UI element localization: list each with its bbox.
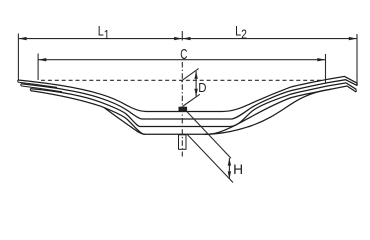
label L2 <box>235 23 247 42</box>
svg-text:C: C <box>180 46 187 63</box>
H oblique extension 2 <box>187 134 233 183</box>
center line (dash-dot) <box>181 62 183 157</box>
left tip 3 <box>29 89 31 91</box>
right tip A <box>356 83 358 85</box>
label C <box>180 46 187 63</box>
left tip 1 <box>17 80 19 82</box>
leaf 4 bottom edge left taper <box>104 108 145 135</box>
leaf 3 bottom edge <box>30 86 356 134</box>
extension line C right <box>325 54 327 83</box>
arrowhead C left <box>38 58 46 61</box>
leaf 4 bottom edge right taper <box>205 89 332 134</box>
leaf 1 bottom tip stub <box>18 82 57 87</box>
leaf 2 tip stub <box>21 86 62 92</box>
arrowhead L1 right <box>174 37 182 40</box>
label H <box>233 162 243 177</box>
arrowhead C right <box>317 58 325 61</box>
D arrow bottom <box>194 89 197 97</box>
D upper oblique extension <box>181 69 199 82</box>
right tip B <box>355 89 357 92</box>
H dimension line <box>228 158 230 179</box>
extension line C left <box>37 54 39 81</box>
center bolt head <box>179 107 187 111</box>
H oblique extension 1 <box>187 112 231 159</box>
H arrow top <box>228 158 231 166</box>
dimension line C <box>38 59 325 61</box>
D lower oblique extension <box>182 94 199 106</box>
svg-text:L2: L2 <box>235 23 247 42</box>
extension line left (L1) <box>17 34 19 81</box>
left tip 2 <box>20 84 22 86</box>
arrowhead L2 right <box>349 37 357 40</box>
center bolt nut <box>179 135 187 150</box>
dimension line L1-L2 <box>18 38 357 40</box>
center tick <box>181 31 183 40</box>
datum dashed line <box>41 79 322 81</box>
arrowhead L2 left <box>182 37 190 40</box>
D arrow top <box>194 71 197 79</box>
H arrow bottom <box>228 171 231 179</box>
svg-text:H: H <box>233 162 243 177</box>
leaf 1 bottom edge <box>21 80 357 119</box>
label L1 <box>98 23 110 42</box>
leaf 1 top edge <box>18 76 357 111</box>
leaf 2 bottom edge <box>30 83 356 127</box>
arrowhead L1 left <box>18 37 26 40</box>
svg-text:D: D <box>198 80 206 95</box>
label D <box>198 80 206 95</box>
D dimension line <box>195 71 197 96</box>
svg-text:L1: L1 <box>98 23 110 42</box>
extension line right (L2) <box>356 34 358 86</box>
